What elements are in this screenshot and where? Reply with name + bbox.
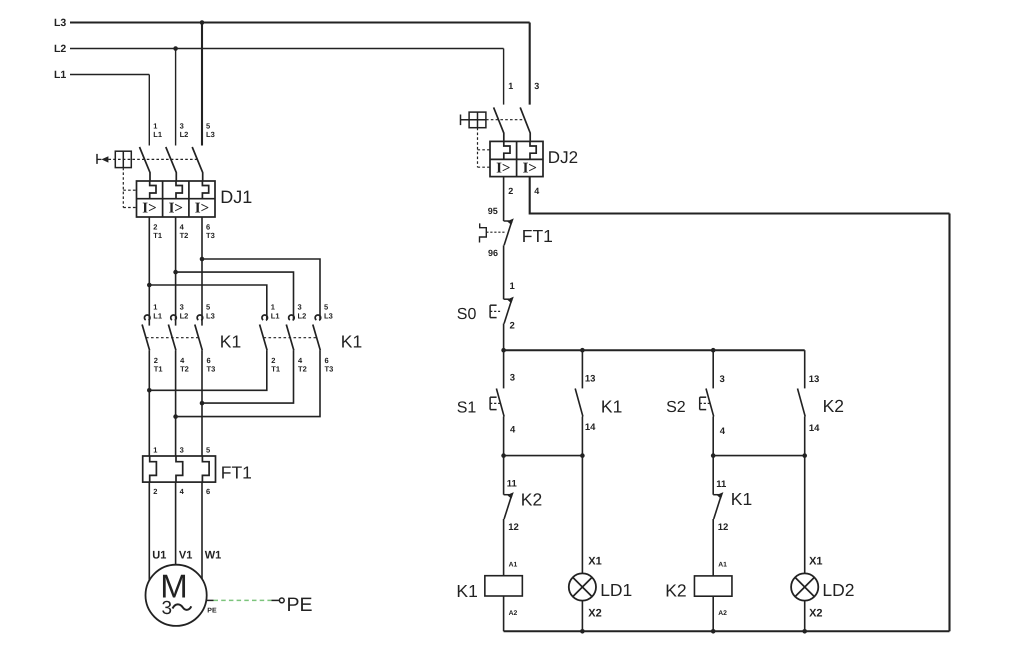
lamp LD2 bbox=[791, 573, 818, 600]
svg-text:U1: U1 bbox=[152, 549, 166, 561]
S2 NO contact bbox=[706, 389, 714, 417]
DJ1 pin label T3 bbox=[206, 231, 215, 240]
K1 contact pin 6 out bbox=[207, 356, 211, 365]
contactor K1b label bbox=[341, 332, 362, 352]
junction rail K1aux bbox=[580, 348, 585, 353]
svg-text:3: 3 bbox=[510, 373, 515, 384]
FT1 pin 6 bbox=[206, 487, 210, 496]
svg-text:L1: L1 bbox=[153, 130, 162, 139]
wire T2 down bbox=[175, 217, 177, 326]
label V1 bbox=[179, 549, 192, 561]
FT1 heater pole3 bbox=[202, 456, 209, 482]
FT1 trip dashed link bbox=[486, 231, 505, 233]
svg-text:2: 2 bbox=[508, 186, 513, 196]
DJ1 mechanism box bbox=[115, 151, 131, 167]
junction rail S2 bbox=[711, 348, 716, 353]
svg-text:K1: K1 bbox=[601, 396, 622, 416]
K1 coil pin A1 bbox=[509, 561, 518, 568]
wire K1aux to LD1 bbox=[581, 456, 583, 574]
K1 aux NO contact bbox=[575, 389, 583, 417]
contactor K1b pole3 contact bbox=[313, 315, 321, 350]
wire W1 bbox=[201, 482, 203, 579]
junction L2/DJ1 bbox=[173, 46, 178, 51]
wire L2 to DJ2 pole1 bbox=[503, 49, 505, 105]
net L2 label bbox=[54, 43, 66, 55]
DJ1 pole1 blade bbox=[140, 147, 151, 181]
net L1 label bbox=[54, 69, 66, 81]
svg-text:T2: T2 bbox=[180, 365, 189, 374]
svg-text:14: 14 bbox=[585, 422, 596, 433]
wire to K2 NC bbox=[503, 456, 505, 495]
wire T3 down bbox=[201, 217, 203, 326]
junction S1 out bbox=[501, 453, 506, 458]
svg-text:11: 11 bbox=[507, 479, 518, 490]
DJ1 thermal element pole1 bbox=[150, 181, 156, 199]
K1 contact pin T2 out bbox=[180, 365, 189, 374]
wire V1 bbox=[175, 482, 177, 565]
DJ1 thermal element pole2 bbox=[176, 181, 182, 199]
K1 aux pin 13 bbox=[585, 374, 596, 385]
wire DJ2 pole2 out to right rail bbox=[530, 177, 950, 214]
wire right rail bbox=[948, 214, 950, 632]
FT1 pin 1 bbox=[153, 445, 157, 454]
svg-text:T3: T3 bbox=[207, 365, 216, 374]
LD1 label bbox=[600, 580, 632, 600]
svg-text:T3: T3 bbox=[206, 231, 215, 240]
K1 contact pin 3 bbox=[180, 303, 184, 312]
wire PE stub right bbox=[272, 599, 280, 601]
svg-text:6: 6 bbox=[206, 487, 210, 496]
K1 contact pin 5 bbox=[324, 303, 328, 312]
DJ2 pole2 blade bbox=[520, 107, 530, 141]
DJ1 pin label T2 bbox=[180, 231, 189, 240]
svg-text:3: 3 bbox=[162, 598, 173, 619]
svg-text:A1: A1 bbox=[718, 561, 727, 568]
DJ2 mechanism dashed stub lower bbox=[478, 166, 491, 168]
K2 NC contact bbox=[504, 492, 514, 519]
K1 aux label bbox=[601, 396, 622, 416]
K1 contact pin T1 out bbox=[154, 365, 163, 374]
FT1 NC contact bbox=[504, 218, 514, 245]
svg-text:A1: A1 bbox=[509, 561, 518, 568]
DJ2 pin 3 bbox=[534, 81, 539, 91]
K1 contact pin 3 bbox=[298, 303, 302, 312]
svg-text:S0: S0 bbox=[457, 306, 477, 323]
S1 label bbox=[457, 399, 477, 416]
svg-text:S2: S2 bbox=[666, 399, 686, 416]
FT1 heater pole1 bbox=[150, 456, 157, 482]
LD2 label bbox=[822, 580, 854, 600]
contactor K1 pole2 contact bbox=[168, 315, 176, 350]
svg-text:T3: T3 bbox=[325, 365, 334, 374]
wire K2aux to LD2 bbox=[804, 456, 806, 574]
wire bottom rail bbox=[504, 630, 950, 632]
svg-text:DJ2: DJ2 bbox=[548, 148, 578, 167]
svg-text:3: 3 bbox=[534, 81, 539, 91]
junction T2 branch bbox=[173, 270, 178, 275]
wire rail corner to K2aux bbox=[804, 350, 806, 388]
K1 contact pin T1 out bbox=[271, 365, 280, 374]
FT1 trip symbol bbox=[480, 223, 487, 242]
S1 pin 3 bbox=[510, 373, 515, 384]
svg-text:1: 1 bbox=[271, 303, 275, 312]
junction K2aux out bbox=[802, 453, 807, 458]
wire L3 to DJ2 pole2 bbox=[529, 23, 531, 105]
DJ1 trip linkage dashed bbox=[108, 158, 199, 160]
svg-text:14: 14 bbox=[809, 423, 820, 434]
svg-text:A2: A2 bbox=[509, 610, 518, 617]
DJ1 mechanism dashed vertical bbox=[122, 168, 124, 208]
K1 contact pin 6 out bbox=[325, 356, 329, 365]
FT1 heater pole2 bbox=[176, 456, 183, 482]
K1 contact pin L2 bbox=[180, 312, 189, 321]
K1 contact pin 2 out bbox=[271, 356, 275, 365]
K1 contact pin L3 bbox=[324, 312, 333, 321]
svg-text:X2: X2 bbox=[588, 607, 601, 619]
contactor K1 pole3 contact bbox=[195, 315, 203, 350]
svg-text:L1: L1 bbox=[54, 69, 66, 81]
junction rail S1 bbox=[501, 348, 506, 353]
DJ1 thermal element pole3 bbox=[202, 181, 208, 199]
K1 contact pin L3 bbox=[206, 312, 215, 321]
svg-text:3: 3 bbox=[180, 303, 184, 312]
svg-text:K2: K2 bbox=[665, 580, 686, 600]
FT1 pin 4 bbox=[180, 487, 185, 496]
lamp LD1 bbox=[569, 573, 596, 600]
wire PE stub left bbox=[207, 599, 214, 601]
svg-text:X2: X2 bbox=[809, 608, 822, 620]
contactor K1 pole1 contact bbox=[142, 315, 150, 350]
svg-text:L1: L1 bbox=[153, 312, 162, 321]
S0 pin 2 bbox=[510, 321, 515, 332]
svg-text:96: 96 bbox=[488, 248, 498, 258]
junction merge T3 bbox=[200, 401, 205, 406]
DJ1 mechanism dashed stub lower bbox=[123, 207, 136, 209]
wire DJ2 pole1 out bbox=[503, 177, 505, 221]
K1 contact pin 4 out bbox=[180, 356, 185, 365]
DJ2 mechanism box bbox=[469, 112, 486, 128]
wire LD2 to bottom rail bbox=[804, 601, 806, 632]
DJ1 body box bbox=[137, 181, 216, 217]
wire S2-K2aux connector bbox=[713, 455, 805, 457]
junction L3/DJ1 bbox=[200, 20, 205, 25]
junction merge T2 bbox=[173, 414, 178, 419]
svg-text:1: 1 bbox=[510, 281, 516, 292]
DJ2 pin 1 bbox=[508, 81, 513, 91]
DJ2 thermal element pole1 bbox=[504, 141, 510, 159]
svg-text:FT1: FT1 bbox=[522, 226, 553, 246]
K1 contact pin 1 bbox=[153, 303, 157, 312]
FT1 pin 3 bbox=[180, 445, 184, 454]
DJ1 pin label 3 bbox=[180, 122, 184, 131]
K2 coil label bbox=[665, 580, 686, 600]
wire LD1 to bottom rail bbox=[581, 601, 583, 632]
wire L2 to DJ1 pole2 bbox=[175, 49, 177, 146]
K1 coil pin A2 bbox=[509, 610, 518, 617]
svg-text:13: 13 bbox=[585, 374, 596, 385]
S2 pin 3 bbox=[720, 374, 725, 385]
contactor K1b pole2 contact bbox=[286, 315, 294, 350]
S2 pin 4 bbox=[720, 426, 726, 437]
K2 coil bbox=[694, 576, 732, 596]
svg-text:FT1: FT1 bbox=[221, 463, 252, 483]
wire U1 bbox=[148, 482, 150, 580]
DJ2 trip linkage dashed bbox=[486, 119, 526, 121]
wire S1 out bbox=[503, 417, 505, 456]
wire K1aux out bbox=[581, 417, 583, 456]
K1 contact pin T3 out bbox=[207, 365, 216, 374]
DJ1 pin label L3 bbox=[206, 130, 215, 139]
K2 coil pin A2 bbox=[718, 610, 727, 617]
S1 NO contact bbox=[496, 389, 504, 417]
K1 contact pin L1 bbox=[153, 312, 162, 321]
DJ1 pin label L1 bbox=[153, 130, 162, 139]
contactor K1 label bbox=[220, 332, 241, 352]
K2 aux label bbox=[823, 396, 844, 416]
svg-text:LD1: LD1 bbox=[600, 580, 632, 600]
S0 label bbox=[457, 306, 477, 323]
wire L3 rail bbox=[70, 21, 530, 23]
K2 NC pin 12 bbox=[508, 522, 519, 533]
K1 contact pin 1 bbox=[271, 303, 275, 312]
motor letter M bbox=[160, 568, 188, 605]
K1 contact pin 2 out bbox=[154, 356, 158, 365]
svg-text:L1: L1 bbox=[271, 312, 280, 321]
K2 NC pin 11 bbox=[507, 479, 518, 490]
svg-text:T2: T2 bbox=[298, 365, 307, 374]
svg-text:1: 1 bbox=[153, 303, 157, 312]
svg-text:3: 3 bbox=[298, 303, 302, 312]
DJ1 pin label L2 bbox=[180, 130, 189, 139]
svg-text:PE: PE bbox=[287, 594, 313, 616]
PE label bbox=[287, 594, 313, 616]
svg-text:L2: L2 bbox=[180, 312, 189, 321]
svg-text:1: 1 bbox=[153, 445, 157, 454]
S2 label bbox=[666, 399, 686, 416]
svg-text:K1: K1 bbox=[731, 489, 752, 509]
LD1 pin X2 bbox=[588, 607, 601, 619]
svg-text:T1: T1 bbox=[271, 365, 280, 374]
svg-text:L2: L2 bbox=[180, 130, 189, 139]
FT1 pin 2 bbox=[153, 487, 157, 496]
label U1 bbox=[152, 549, 166, 561]
wire K2NC to K1 coil bbox=[503, 519, 505, 576]
K1 contact pin L2 bbox=[298, 312, 307, 321]
svg-text:V1: V1 bbox=[179, 549, 192, 561]
FT1 body box bbox=[143, 456, 216, 482]
svg-text:T1: T1 bbox=[153, 231, 162, 240]
LD2 pin X2 bbox=[809, 608, 822, 620]
svg-text:3: 3 bbox=[720, 374, 725, 385]
PE terminal circle bbox=[279, 598, 284, 603]
DJ2 magnetic element pole2 bbox=[523, 161, 537, 177]
wire control rail bbox=[504, 349, 805, 351]
svg-text:5: 5 bbox=[206, 303, 210, 312]
svg-text:13: 13 bbox=[809, 374, 820, 385]
wire L1 to DJ1 pole1 bbox=[148, 75, 150, 146]
svg-text:2: 2 bbox=[153, 487, 157, 496]
K1 NC pin 12 bbox=[718, 522, 729, 533]
FT1 NC pin 95 bbox=[488, 206, 498, 216]
wire K1b pole1 out bbox=[149, 350, 266, 390]
wire rail to S1 bbox=[503, 350, 505, 388]
wire K2aux out bbox=[804, 417, 806, 456]
LD2 pin X1 bbox=[809, 556, 822, 568]
svg-text:LD2: LD2 bbox=[822, 580, 854, 600]
junction merge T1 bbox=[147, 388, 152, 393]
svg-text:5: 5 bbox=[206, 445, 210, 454]
wire L3 to DJ1 pole3 bbox=[201, 23, 203, 146]
svg-text:T2: T2 bbox=[180, 231, 189, 240]
DJ1 pin label 1 bbox=[153, 122, 157, 131]
svg-text:K2: K2 bbox=[823, 396, 844, 416]
DJ2 pin 4 bbox=[534, 186, 539, 196]
motor M1 circle bbox=[146, 565, 207, 626]
S1 pushbutton actuator bbox=[490, 397, 500, 409]
svg-text:4: 4 bbox=[534, 186, 539, 196]
K1 linkage dashed bbox=[146, 337, 199, 339]
svg-text:L2: L2 bbox=[54, 43, 66, 55]
svg-text:L3: L3 bbox=[324, 312, 333, 321]
wire K1NC to K2 coil bbox=[712, 519, 714, 576]
S0 pin 1 bbox=[510, 281, 516, 292]
K1 contact pin L1 bbox=[271, 312, 280, 321]
wire S2 out bbox=[712, 417, 714, 456]
DJ2 thermal element pole2 bbox=[530, 141, 536, 159]
K1 aux pin 14 bbox=[585, 422, 596, 433]
svg-text:4: 4 bbox=[720, 426, 726, 437]
FT1 label bbox=[221, 463, 252, 483]
wire K2 coil to bottom rail bbox=[712, 596, 714, 631]
DJ2 manual actuator bbox=[461, 115, 487, 126]
DJ2 body box bbox=[490, 141, 543, 176]
svg-text:1: 1 bbox=[508, 81, 513, 91]
K1b linkage dashed bbox=[264, 337, 317, 339]
svg-text:I>: I> bbox=[496, 161, 510, 177]
K1 NC label bbox=[731, 489, 752, 509]
svg-text:K1: K1 bbox=[220, 332, 241, 352]
svg-text:12: 12 bbox=[508, 522, 519, 533]
wire K1 coil to bottom rail bbox=[503, 596, 505, 631]
K1 contact pin T2 out bbox=[298, 365, 307, 374]
wire T1 to K1b pole1 bbox=[149, 285, 266, 320]
DJ2 label bbox=[548, 148, 578, 167]
DJ1 pin label 2 bbox=[153, 223, 157, 232]
DJ1 manual actuator bbox=[97, 154, 108, 164]
wire K1b pole3 out bbox=[176, 350, 320, 416]
K2 aux NO contact bbox=[798, 389, 806, 417]
svg-text:X1: X1 bbox=[588, 555, 601, 567]
FT1 NC label bbox=[522, 226, 553, 246]
S2 pushbutton actuator bbox=[700, 397, 710, 409]
svg-text:11: 11 bbox=[716, 479, 727, 490]
wire S1-K1aux connector bbox=[504, 455, 583, 457]
wire FT1 to S0 bbox=[503, 245, 505, 299]
motor tilde bbox=[173, 604, 192, 609]
LD1 pin X1 bbox=[588, 555, 601, 567]
svg-text:S1: S1 bbox=[457, 399, 477, 416]
svg-text:A2: A2 bbox=[718, 610, 727, 617]
wire rail to S2 bbox=[712, 350, 714, 388]
wire K1b pole2 out bbox=[202, 350, 294, 403]
DJ2 pole1 blade bbox=[494, 107, 504, 141]
junction K1aux out bbox=[580, 453, 585, 458]
net L3 label bbox=[54, 17, 66, 29]
motor 3 bbox=[162, 598, 173, 619]
DJ2 pin 2 bbox=[508, 186, 513, 196]
FT1 pin 5 bbox=[206, 445, 210, 454]
svg-text:I>: I> bbox=[523, 161, 537, 177]
motor PE pin label bbox=[207, 608, 217, 615]
DJ2 mechanism dashed vertical bbox=[477, 128, 479, 168]
FT1 NC pin 96 bbox=[488, 248, 498, 258]
svg-text:W1: W1 bbox=[205, 549, 222, 561]
DJ1 magnetic element pole3 bbox=[195, 201, 209, 217]
DJ2 magnetic element pole1 bbox=[496, 161, 510, 177]
wire L2 rail bbox=[70, 48, 504, 50]
DJ1 magnetic element pole2 bbox=[169, 201, 183, 217]
K1 contact pin T3 out bbox=[325, 365, 334, 374]
junction bottom K2coil bbox=[711, 629, 716, 634]
K1 NC pin 11 bbox=[716, 479, 727, 490]
contactor K1b pole1 contact bbox=[260, 315, 268, 350]
svg-text:DJ1: DJ1 bbox=[220, 187, 252, 207]
svg-text:95: 95 bbox=[488, 206, 498, 216]
svg-text:K1: K1 bbox=[341, 332, 362, 352]
svg-text:K2: K2 bbox=[521, 489, 542, 509]
svg-text:2: 2 bbox=[510, 321, 515, 332]
K1 coil label bbox=[456, 581, 477, 601]
svg-text:I>: I> bbox=[195, 201, 209, 217]
K2 coil pin A1 bbox=[718, 561, 727, 568]
svg-text:T1: T1 bbox=[154, 365, 163, 374]
K1 NC contact bbox=[713, 492, 723, 519]
svg-text:I>: I> bbox=[169, 201, 183, 217]
S0 NC contact bbox=[504, 297, 514, 324]
wire to K1 NC bbox=[712, 456, 714, 495]
junction T1 branch bbox=[147, 283, 152, 288]
svg-text:L3: L3 bbox=[54, 17, 66, 29]
junction bottom LD1 bbox=[580, 629, 585, 634]
wire rail to K1aux bbox=[581, 350, 583, 388]
K2 aux pin 14 bbox=[809, 423, 820, 434]
DJ1 pin label 5 bbox=[206, 122, 210, 131]
DJ1 magnetic element pole1 bbox=[142, 201, 156, 217]
svg-text:L2: L2 bbox=[298, 312, 307, 321]
wire S0 to rail bbox=[503, 324, 505, 351]
K2 aux pin 13 bbox=[809, 374, 820, 385]
K1 contact pin 5 bbox=[206, 303, 210, 312]
svg-text:4: 4 bbox=[510, 425, 516, 436]
wire T2 to K1b pole2 bbox=[176, 272, 294, 320]
svg-text:12: 12 bbox=[718, 522, 729, 533]
K1 coil bbox=[485, 576, 522, 596]
S1 pin 4 bbox=[510, 425, 516, 436]
svg-text:5: 5 bbox=[324, 303, 328, 312]
svg-text:L3: L3 bbox=[206, 312, 215, 321]
DJ1 pin label 6 bbox=[206, 223, 210, 232]
wire PE green dashed bbox=[214, 599, 272, 601]
svg-text:K1: K1 bbox=[456, 581, 477, 601]
junction bottom LD2 bbox=[802, 629, 807, 634]
K1 contact pin 4 out bbox=[298, 356, 303, 365]
svg-text:3: 3 bbox=[180, 445, 184, 454]
DJ2 mechanism dashed stub upper bbox=[478, 149, 491, 151]
DJ1 pole2 blade bbox=[166, 147, 177, 181]
wire K1 pole2 out bbox=[175, 350, 177, 456]
svg-text:X1: X1 bbox=[809, 556, 822, 568]
junction S2 out bbox=[711, 453, 716, 458]
